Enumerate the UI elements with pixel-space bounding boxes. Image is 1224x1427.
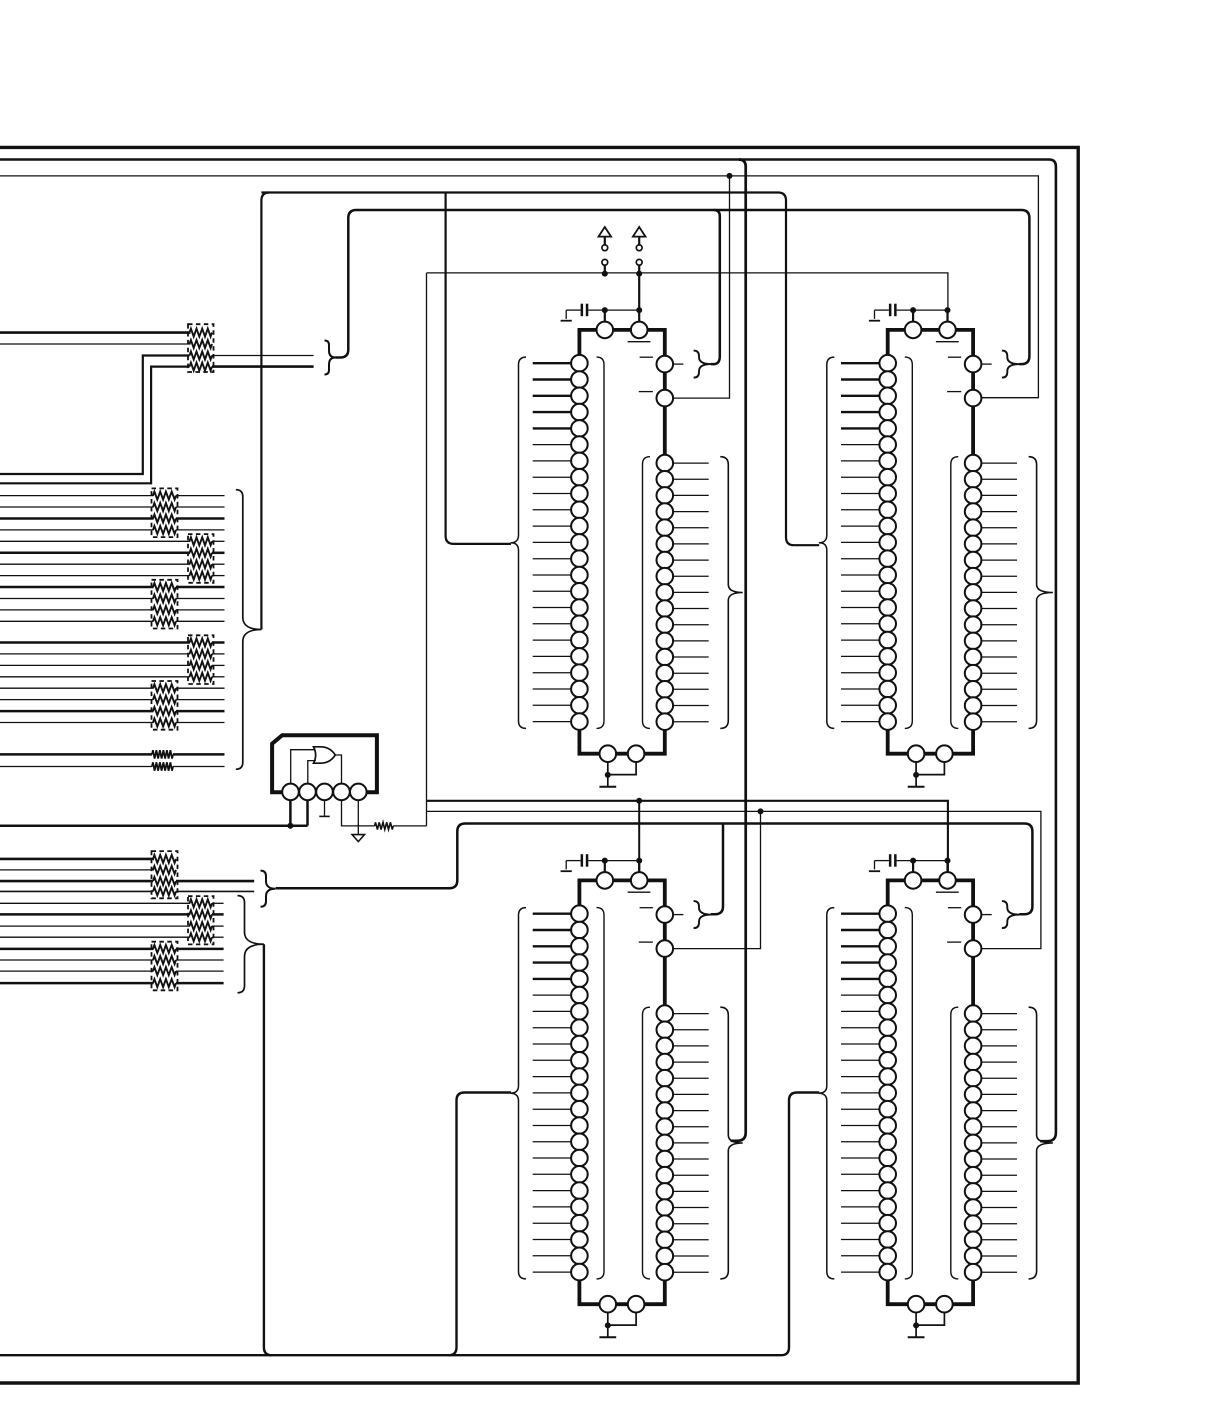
wire R3 to spine x=426.5 [393, 825, 426, 827]
U3 inner-left bracket [597, 908, 605, 1279]
U2 top pins (VCC) [905, 322, 922, 339]
wire row y=518.5 [0, 517, 154, 520]
small brace at U3 RAS pin [694, 901, 712, 928]
DRAM U3 body [579, 880, 664, 1304]
resistor R2 discrete (y=766.5) [0, 766, 152, 768]
U3 right data pins (17) with stubs [657, 1005, 709, 1280]
capacitor C4 [889, 854, 892, 867]
U3 outer-right brace (cusp to data bus) [720, 1007, 742, 1279]
U4 left address/data pins (23) with stubs [841, 905, 896, 1280]
U1 inner-right bracket [643, 457, 651, 729]
wire row y=948.9 [0, 948, 154, 951]
wire branch from dot (639.2,800.8) down to U3 VCC pin [638, 801, 640, 872]
wire RP7 row2 left [0, 869, 154, 871]
U3 right control pins RAS/CAS [657, 906, 674, 923]
ground wiring under U1 [607, 762, 609, 787]
U4 right data pins (17) with stubs [965, 1005, 1017, 1280]
wire row y=903.3 [0, 902, 190, 904]
wire row y=642.5 [0, 641, 190, 644]
wire row y=653.9 [0, 653, 190, 655]
wire branch x=456.5 from bottom bus up to U3 left-pin brace cusp [449, 1093, 512, 1356]
giant brace gathering upper-left rows into x=261 bus [236, 490, 262, 770]
U1 outer-right brace (cusp to data bus) [720, 457, 742, 729]
wire vertical spine x=426.5 from y=273 line down to R-AND output wire [426, 273, 428, 826]
U1 right control pins RAS/CAS [657, 356, 674, 373]
wire G1 pin 4 to resistor R3 [342, 800, 375, 826]
resistor pack RP8 (dashed box, 4 resistors) [188, 896, 214, 944]
resistor pack RP9 (dashed box, 4 resistors) [152, 942, 178, 991]
wire row y=937.2 [0, 936, 190, 938]
stub from U1 RAS pin to brace [673, 363, 683, 365]
U4 top pins (VCC) [905, 872, 922, 889]
wire row y=541.3 [0, 540, 190, 542]
capacitor C2 [889, 304, 892, 317]
U3 left address/data pins (23) with stubs [533, 905, 588, 1280]
page frame border [0, 147, 1078, 1383]
U4 outer-right brace (cusp to data bus) [1029, 1007, 1053, 1279]
wire row y=665.4 [0, 664, 190, 666]
wire bottom bus (y=1355) from left edge, up at x=789 to U4 left-pin brace cusp [0, 1093, 819, 1356]
wire row y=495.6 [0, 495, 154, 497]
wire RP1 row2 left [0, 343, 191, 345]
wire row y=914.4 [0, 913, 190, 916]
capacitor C3 [581, 854, 584, 867]
stub from U4 RAS pin to brace [981, 914, 991, 916]
wire RP1 row4 (left leg down to y=483 to edge, right to brace) [0, 367, 190, 484]
wire cap row to top pins of U4 [912, 861, 914, 873]
U1 right data pins (17) with stubs [657, 455, 709, 730]
U1 top pins (VCC) [597, 322, 614, 339]
ground wiring under U3 [607, 1313, 609, 1338]
DRAM U1 body [579, 330, 664, 754]
wire (y=825.7) from left edge to G1 pins 1-2 [0, 824, 308, 827]
wire row y=575.6 [0, 575, 190, 577]
wire junction at (729.5,176) down to U1 pin CAS [673, 176, 729, 398]
brace for RP7 rows 3-4 feeding loop wire [261, 871, 276, 907]
chassis ground triangle at G1 pin 5 [357, 800, 359, 834]
ground wiring under U2 [915, 762, 917, 787]
U1 bottom ground pins [600, 745, 617, 762]
junction dot at G1 pin1 [287, 823, 293, 829]
wire branch x=263.9 from RP8/RP9 brace cusp down to bottom bus [264, 944, 272, 1355]
resistor pack RP4 (dashed box, 4 resistors) [152, 580, 178, 629]
stub from U3 RAS pin to brace [673, 914, 683, 916]
junction dots on cap row U3 [602, 858, 608, 864]
capacitor C1 [581, 304, 584, 317]
overbar label under U2 top pin 2 [936, 341, 959, 343]
gate G1 output wire to pin 4 [335, 755, 341, 784]
brace for RP1 rows 3-4 [325, 341, 336, 375]
ground for C3 [565, 861, 567, 870]
wire thin bus (y=811.4) from spine to corner down into U4 pin CAS [427, 811, 1041, 948]
overbar labels at U4 right pins [948, 907, 961, 909]
U4 outer-left brace (cusp to address bus) [819, 908, 835, 1279]
wire connector 2 down to U1 VCC node [638, 274, 640, 311]
U1 inner-left bracket [597, 357, 605, 728]
small brace at U4 RAS pin [1002, 901, 1020, 928]
wire row y=621.3 [0, 620, 154, 622]
resistor pack RP6 (dashed box, 4 resistors) [152, 681, 178, 730]
small brace at U2 RAS pin [1002, 351, 1020, 378]
U4 bottom ground pins [908, 1296, 925, 1313]
U2 outer-right brace (cusp to data bus) [1029, 457, 1053, 729]
wire row y=587.0 [0, 586, 154, 589]
junction dot on y=800.8 bus [636, 798, 642, 804]
junction dots on cap row U2 [910, 307, 916, 313]
U2 inner-right bracket [951, 457, 959, 729]
wire from giant brace cusp up to y=192.5 [261, 193, 269, 630]
wire row y=699.6 [0, 699, 154, 701]
wire (y=192.5) from left bus brace to x=786 down to U2 left-pin brace cusp [261, 193, 819, 546]
ground wiring under U4 [915, 1313, 917, 1338]
U2 right control pins RAS/CAS [965, 356, 982, 373]
resistor R3 [375, 822, 394, 829]
wire RP7 row4 both sides [0, 890, 153, 892]
wire cap row to top pins of U1 [604, 310, 606, 322]
DRAM U4 body [888, 880, 973, 1304]
wire thin (y=273) supply line over U1/U2 with corner down to U2 VCC pin [427, 273, 948, 322]
wire thin bus (y=176) across top, down at x=1038 to U2 pin CAS [0, 176, 1038, 398]
resistor pack RP2 (dashed box, 4 resistors) [152, 488, 178, 537]
gate G1 input wires [291, 750, 316, 784]
wire branch x=445.6 down to U1 left-pin brace cusp [446, 193, 511, 544]
wire row y=598.5 [0, 598, 154, 600]
wire cap row to top pins of U3 [604, 861, 606, 873]
wire row y=688.2 [0, 687, 154, 689]
U4 right control pins RAS/CAS [965, 906, 982, 923]
stub from U2 RAS pin to brace [981, 363, 991, 365]
overbar labels at U1 right pins [640, 356, 653, 358]
resistor pack RP3 (dashed box, 4 resistors) [188, 534, 214, 583]
wire RP7 row1 left [0, 858, 154, 861]
wire row y=552.8 [0, 552, 190, 555]
ground at G1 pin 3 [324, 800, 326, 816]
tall brace gathering RP8/RP9 rows into x=263.9 bus [238, 896, 264, 993]
U2 outer-left brace (cusp to address bus) [819, 357, 835, 728]
U2 right data pins (17) with stubs [965, 455, 1017, 730]
junction dot on y=811.4 bus [758, 808, 764, 814]
overbar label under U4 top pin 2 [936, 891, 959, 893]
wire loop (y=823.5) from RP7 brace over U3/U4 to their top-right braces [276, 824, 1033, 915]
small brace at U1 RAS pin [694, 351, 712, 378]
wire RP7 row3 both sides [0, 880, 153, 883]
wire row y=609.9 [0, 609, 154, 611]
wire row y=983.1 [0, 982, 154, 985]
gate block G1 outline (chamfered) [272, 735, 377, 792]
wire cap row to top pins of U2 [912, 310, 914, 322]
wire bus RAS (y=159) across top, down right side to U4 right-pin brace [0, 160, 1056, 1142]
overbar labels at U2 right pins [948, 356, 961, 358]
resistor R1 discrete (y=754.4) [0, 753, 152, 756]
U4 inner-left bracket [905, 908, 913, 1279]
wire bus (y=800.8) from spine to corner down into U4 VCC pin [427, 801, 948, 872]
DRAM U2 body [888, 330, 973, 754]
resistor pack RP1 (dashed box, 4 resistors) [188, 324, 214, 372]
U2 left address/data pins (23) with stubs [841, 355, 896, 730]
connector (off-page arrow) at x=604.8 [599, 227, 612, 237]
wire row y=529.9 [0, 529, 154, 531]
wire RP1 row3 (left leg down to y=474 to edge, right to brace) [0, 356, 190, 475]
wire row y=711.1 [0, 710, 154, 713]
U1 left address/data pins (23) with stubs [533, 355, 588, 730]
ground for C2 [874, 310, 876, 319]
junction dots on cap row U1 [602, 307, 608, 313]
wire branch (x=745.7) from y=159 bus down to U3 right-pin brace cusp [731, 160, 746, 1141]
ground for C1 [565, 310, 567, 319]
wire row y=960.0 [0, 959, 154, 961]
U4 inner-right bracket [951, 1007, 959, 1279]
wire RP1 row1 left [0, 331, 191, 334]
OR gate symbol inside G1 [314, 747, 336, 763]
resistor pack RP5 (dashed box, 4 resistors) [188, 635, 214, 684]
U1 outer-left brace (cusp to address bus) [511, 357, 527, 728]
overbar label under U1 top pin 2 [628, 341, 651, 343]
connector (off-page arrow) at x=639.2 [633, 227, 646, 237]
wire row y=926.1 [0, 925, 190, 927]
wire branch x=723 from loop down to U3 top-right brace cusp [711, 824, 723, 915]
resistor pack RP7 (dashed box, 4 resistors) [152, 851, 178, 898]
junction dot node CAS [727, 173, 733, 179]
U3 bottom ground pins [600, 1296, 617, 1313]
junction dots on cap row U4 [910, 858, 916, 864]
U3 outer-left brace (cusp to address bus) [511, 908, 527, 1279]
wire (y=210) from RP1 brace up-over to U1/U2 top-right braces [336, 210, 1030, 364]
U3 inner-right bracket [643, 1007, 651, 1279]
U2 inner-left bracket [905, 357, 913, 728]
wire row y=564.2 [0, 563, 190, 565]
wire branch from dot (760.5,811.4) down to U3 pin CAS [673, 811, 760, 948]
overbar label under U3 top pin 2 [628, 891, 651, 893]
overbar labels at U3 right pins [640, 907, 653, 909]
wire row y=722.5 [0, 722, 154, 724]
wire row y=676.8 [0, 676, 190, 678]
wire branch x=719.8 from y=210 down to U1 top-right brace cusp [711, 210, 720, 364]
wire row y=971.1 [0, 970, 154, 972]
U3 top pins (VCC) [597, 872, 614, 889]
G1 bottom pins (5) [282, 784, 299, 801]
U2 bottom ground pins [908, 745, 925, 762]
ground for C4 [874, 861, 876, 870]
wire row y=507.0 [0, 506, 154, 508]
